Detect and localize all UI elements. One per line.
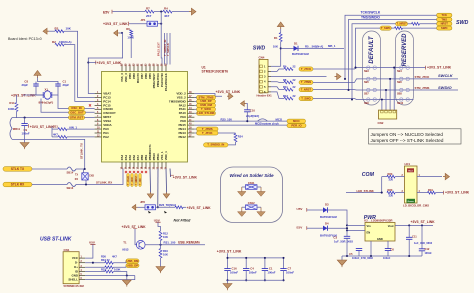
node junction bbox=[87, 61, 89, 63]
power label +3V3_ST_LINK bbox=[183, 206, 186, 208]
svg-text:+3V3_ST_LINK: +3V3_ST_LINK bbox=[217, 249, 242, 253]
svg-text:LD1: LD1 bbox=[405, 162, 411, 166]
svg-text:MCO: MCO bbox=[276, 117, 283, 121]
svg-text:RESERVED: RESERVED bbox=[402, 33, 408, 67]
wire bbox=[38, 78, 59, 85]
svg-text:LED_STLINK: LED_STLINK bbox=[197, 111, 214, 115]
wire bbox=[135, 229, 137, 245]
node junction bbox=[24, 117, 26, 119]
wire MCO row bbox=[195, 120, 288, 122]
net label USB_DM bbox=[126, 259, 139, 263]
ground bbox=[341, 256, 343, 260]
svg-text:SWCLK: SWCLK bbox=[438, 73, 454, 78]
wire GND row bbox=[85, 275, 135, 277]
wire bbox=[195, 100, 197, 102]
wire bbox=[280, 29, 282, 33]
wire bbox=[51, 127, 53, 137]
svg-text:TX: TX bbox=[75, 175, 78, 177]
svg-text:+3V3_ST_LINK: +3V3_ST_LINK bbox=[216, 90, 241, 94]
svg-text:10K: 10K bbox=[273, 45, 278, 49]
svg-text:R36: R36 bbox=[101, 254, 106, 258]
svg-text:U5V: U5V bbox=[297, 207, 304, 211]
U1 left pins bbox=[95, 93, 102, 95]
wire TMS/SWDIO bbox=[349, 20, 437, 91]
wire bbox=[36, 86, 44, 95]
wire bbox=[395, 176, 404, 178]
svg-text:+3V3_ST_LINK: +3V3_ST_LINK bbox=[103, 22, 128, 26]
resistor R12 bbox=[284, 97, 293, 100]
wire CN4 pin1 to D1 node bbox=[271, 65, 281, 67]
capacitor C16 bbox=[227, 258, 229, 269]
wire JP6 net bbox=[157, 169, 159, 208]
svg-text:R31_100: R31_100 bbox=[164, 241, 176, 245]
svg-text:T1: T1 bbox=[123, 241, 127, 245]
capacitor C10 bbox=[244, 110, 250, 112]
wire bbox=[246, 112, 248, 121]
resistor R20 bbox=[387, 191, 395, 194]
U1 bottom pins bbox=[121, 162, 123, 169]
svg-text:R25_100: R25_100 bbox=[221, 117, 233, 121]
svg-text:Header 6X1: Header 6X1 bbox=[257, 93, 273, 97]
not fitted marks bbox=[148, 211, 151, 214]
resistor R12 bbox=[159, 231, 162, 240]
svg-text:SWD: SWD bbox=[456, 20, 469, 26]
svg-text:SWD: SWD bbox=[253, 45, 266, 51]
capacitor C5 bbox=[358, 251, 360, 256]
svg-text:T_SWO: T_SWO bbox=[301, 96, 311, 100]
svg-text:JP1: JP1 bbox=[141, 18, 146, 22]
svg-text:LD_BICOLOR_CMS: LD_BICOLOR_CMS bbox=[403, 203, 429, 207]
svg-text:SB10: SB10 bbox=[397, 102, 404, 105]
wire bbox=[113, 272, 127, 276]
svg-text:PA2: PA2 bbox=[103, 135, 109, 139]
svg-text:CN4: CN4 bbox=[259, 56, 265, 60]
svg-text:+3V3_ST_LINK: +3V3_ST_LINK bbox=[122, 225, 147, 229]
capacitor C1 bbox=[264, 258, 266, 269]
stadium RESERVED bbox=[396, 31, 414, 105]
svg-text:10K: 10K bbox=[163, 235, 168, 239]
wire row2 SWCLK bbox=[414, 78, 459, 80]
svg-text:+3V3_ST_LINK: +3V3_ST_LINK bbox=[445, 191, 470, 195]
transistor T1 bbox=[136, 240, 145, 249]
svg-text:10K: 10K bbox=[163, 253, 168, 257]
solder bridge SB13 bbox=[67, 183, 76, 187]
svg-text:AIN_1: AIN_1 bbox=[69, 125, 77, 129]
svg-text:STM_JTMS: STM_JTMS bbox=[415, 86, 430, 90]
wire bbox=[76, 168, 85, 170]
net label T_JTMS bbox=[299, 80, 313, 84]
svg-text:USB_DM: USB_DM bbox=[127, 259, 139, 263]
resistor R24 bbox=[234, 134, 237, 143]
resistor R35 bbox=[105, 266, 113, 269]
svg-text:9013: 9013 bbox=[122, 247, 129, 251]
svg-text:22: 22 bbox=[293, 78, 296, 82]
svg-text:E5V: E5V bbox=[297, 225, 304, 229]
svg-text:SWDIO: SWDIO bbox=[438, 85, 452, 90]
net label T_SWO bbox=[299, 96, 313, 100]
svg-text:TMS: TMS bbox=[441, 17, 447, 21]
svg-text:R9: R9 bbox=[283, 64, 287, 68]
note box jumpers bbox=[369, 129, 462, 144]
wire bbox=[281, 47, 294, 49]
svg-text:STLK RX: STLK RX bbox=[11, 182, 25, 186]
wire bbox=[218, 132, 236, 134]
svg-text:Not Fitted: Not Fitted bbox=[174, 219, 192, 223]
wire SWDIO long bbox=[195, 96, 197, 98]
wire bbox=[165, 169, 168, 193]
svg-text:SB7: SB7 bbox=[364, 92, 369, 95]
power flag arrow left bbox=[43, 28, 47, 34]
svg-text:OSC_OUT: OSC_OUT bbox=[70, 110, 84, 114]
svg-text:PA14/SWCLK: PA14/SWCLK bbox=[164, 73, 168, 91]
resistor R7 bbox=[145, 10, 154, 13]
wire bbox=[235, 132, 237, 135]
wire Vout bbox=[395, 224, 433, 226]
power flag arrow down bbox=[147, 194, 153, 198]
svg-text:+3V3_ST_LINK: +3V3_ST_LINK bbox=[30, 125, 55, 129]
resistor R26 bbox=[175, 206, 183, 209]
wire solder-bridge row bbox=[363, 67, 414, 69]
wire hop bbox=[258, 119, 268, 121]
svg-text:+3V3_ST_LINK: +3V3_ST_LINK bbox=[97, 61, 122, 65]
ground arrows bbox=[242, 186, 246, 188]
wire row3 SWDIO bbox=[414, 89, 459, 91]
svg-text:C3: C3 bbox=[333, 236, 337, 240]
capacitor C3 bbox=[346, 230, 348, 236]
wire bbox=[381, 177, 383, 193]
wire bbox=[113, 266, 126, 267]
svg-text:SHELL: SHELL bbox=[68, 278, 78, 282]
svg-text:R34 22: R34 22 bbox=[101, 258, 110, 262]
wire solder-bridge row bbox=[363, 99, 414, 101]
net label USB_DP bbox=[197, 99, 216, 103]
wire bbox=[16, 95, 18, 103]
wire bbox=[149, 169, 152, 193]
svg-text:+3V3_ST_LINK: +3V3_ST_LINK bbox=[427, 66, 452, 70]
net label T_SWO bbox=[380, 26, 391, 30]
svg-text:SB6: SB6 bbox=[397, 81, 402, 84]
net label T_SWDIO_IN bbox=[204, 143, 229, 147]
power flag arrow left bbox=[241, 101, 245, 107]
wire bbox=[395, 192, 404, 194]
svg-text:PB12: PB12 bbox=[178, 135, 186, 139]
svg-text:100nF: 100nF bbox=[267, 271, 275, 275]
mcu U1 STM32F103CBT6 bbox=[102, 72, 188, 163]
power flag +3V3 arrow right bbox=[191, 8, 196, 15]
svg-text:GND: GND bbox=[377, 237, 383, 241]
net label T_JTCK bbox=[299, 67, 313, 71]
svg-text:CN12: CN12 bbox=[248, 201, 255, 205]
wire bbox=[271, 81, 284, 84]
svg-text:JP6: JP6 bbox=[140, 200, 145, 204]
solder bridge SB14 bbox=[67, 167, 76, 171]
svg-text:R12: R12 bbox=[163, 231, 168, 235]
svg-text:100nF: 100nF bbox=[230, 271, 238, 275]
wire bbox=[49, 30, 55, 32]
wire LED_STLINK bbox=[346, 192, 382, 194]
svg-text:T_JCLK: T_JCLK bbox=[127, 176, 130, 185]
ground bbox=[126, 276, 128, 281]
wire bbox=[166, 33, 168, 65]
node junction bbox=[160, 23, 162, 25]
off-page STLK_RX bbox=[3, 182, 32, 187]
net label T_SWO bbox=[197, 107, 216, 111]
resistor R23 bbox=[387, 175, 395, 178]
svg-text:22: 22 bbox=[293, 94, 296, 98]
svg-text:R3: R3 bbox=[55, 27, 59, 31]
resistor R21 bbox=[52, 128, 58, 130]
svg-text:R20: R20 bbox=[388, 188, 393, 192]
U1 top pins bbox=[121, 65, 123, 72]
svg-text:22: 22 bbox=[293, 64, 296, 68]
SWD pad TCK bbox=[437, 13, 453, 17]
svg-text:U2__LD39050PU33R: U2__LD39050PU33R bbox=[364, 219, 393, 223]
wire bbox=[76, 169, 123, 185]
svg-text:T_SWCLK: T_SWCLK bbox=[166, 43, 170, 56]
net label T_NRST bbox=[396, 22, 408, 26]
net label OSC_IN bbox=[69, 106, 85, 110]
svg-text:MCO/system clock: MCO/system clock bbox=[255, 121, 279, 125]
net label USB_DP bbox=[126, 263, 139, 267]
net label T_JDI (vertical) bbox=[139, 174, 142, 187]
svg-text:USB_RENUMn: USB_RENUMn bbox=[178, 241, 200, 245]
svg-text:SWO: SWO bbox=[441, 26, 447, 30]
resistor R9 bbox=[284, 68, 293, 71]
svg-text:R19: R19 bbox=[428, 188, 433, 192]
wire SHELL row bbox=[85, 276, 135, 280]
svg-text:STLINK_TX: STLINK_TX bbox=[80, 143, 84, 159]
svg-text:SB5: SB5 bbox=[364, 81, 369, 84]
svg-text:R23: R23 bbox=[388, 172, 393, 176]
net label T_JCLK (vertical) bbox=[127, 174, 130, 187]
power label +3V3_ST_LINK bbox=[169, 169, 172, 178]
svg-text:U5V: U5V bbox=[89, 241, 96, 245]
power label +3V3_ST_LINK bbox=[28, 124, 30, 128]
wire ID row bbox=[85, 271, 105, 273]
node junction bbox=[121, 32, 123, 34]
svg-text:R12: R12 bbox=[283, 94, 288, 98]
svg-text:T_NRST: T_NRST bbox=[135, 175, 138, 185]
svg-text:Board Ident: PC13=0: Board Ident: PC13=0 bbox=[8, 37, 42, 41]
wire bbox=[271, 69, 284, 71]
svg-text:T_JTCK: T_JTCK bbox=[301, 67, 311, 71]
svg-text:T_NRST: T_NRST bbox=[396, 22, 407, 26]
ground bbox=[24, 126, 26, 143]
svg-text:1uF_X5R_0603: 1uF_X5R_0603 bbox=[414, 241, 433, 245]
svg-text:R24: R24 bbox=[238, 135, 243, 139]
svg-text:T_SWDIO_IN: T_SWDIO_IN bbox=[207, 143, 224, 147]
svg-text:507DMR-05-SM: 507DMR-05-SM bbox=[64, 284, 85, 288]
wire bbox=[113, 261, 126, 263]
U1 right pins bbox=[188, 93, 195, 95]
SWD pad SWO bbox=[437, 26, 453, 30]
connector CN2 bbox=[379, 110, 397, 119]
wire bbox=[195, 104, 197, 106]
wire bbox=[32, 168, 67, 170]
svg-text:22: 22 bbox=[293, 85, 296, 89]
svg-text:100K: 100K bbox=[127, 36, 134, 40]
svg-text:Vin: Vin bbox=[367, 224, 371, 228]
svg-text:Vout: Vout bbox=[388, 224, 394, 228]
svg-text:D1: D1 bbox=[294, 41, 298, 45]
svg-text:STLINK_RX: STLINK_RX bbox=[96, 181, 112, 185]
power flag arrow left bbox=[132, 205, 136, 211]
svg-text:USB_DP: USB_DP bbox=[127, 263, 138, 267]
svg-text:SB9: SB9 bbox=[364, 102, 369, 105]
svg-text:SB13: SB13 bbox=[67, 186, 74, 190]
wire OSC_IN bbox=[58, 95, 95, 109]
wire OSC_OUT bbox=[41, 99, 95, 113]
ground bbox=[156, 267, 165, 272]
power flag arrow up bbox=[277, 22, 284, 27]
off-page STLK_TX bbox=[3, 167, 32, 172]
wire bbox=[271, 87, 284, 90]
svg-text:4K7: 4K7 bbox=[53, 133, 58, 137]
svg-text:STM32F103CBT6: STM32F103CBT6 bbox=[202, 69, 229, 73]
capacitor C8 bbox=[33, 84, 38, 86]
wire bbox=[88, 33, 122, 94]
svg-text:20pF[N/A]: 20pF[N/A] bbox=[246, 114, 259, 118]
wire bbox=[307, 227, 323, 229]
wire row 2 bbox=[195, 124, 288, 126]
svg-text:C11: C11 bbox=[412, 235, 417, 239]
power flag arrow down bbox=[163, 194, 169, 198]
svg-text:CN2: CN2 bbox=[378, 121, 384, 125]
wire bbox=[145, 244, 205, 246]
svg-text:100nF: 100nF bbox=[425, 251, 433, 255]
wire bbox=[307, 209, 323, 211]
SWD pad NRST bbox=[437, 22, 453, 26]
svg-text:X1: X1 bbox=[45, 88, 49, 92]
wire ground rail bbox=[342, 255, 422, 257]
no-connect crosses bbox=[125, 171, 127, 173]
svg-text:330: 330 bbox=[389, 193, 394, 197]
wire D+ row bbox=[85, 266, 105, 268]
svg-text:100nF: 100nF bbox=[286, 271, 294, 275]
wire bbox=[154, 11, 163, 13]
wire row1 right to +3V3 bbox=[414, 67, 426, 69]
svg-text:R7: R7 bbox=[146, 6, 150, 10]
wire bbox=[417, 192, 428, 194]
svg-text:MB_1: MB_1 bbox=[328, 44, 336, 48]
svg-text:BAT60JFILM: BAT60JFILM bbox=[320, 215, 337, 219]
power flag arrow left bbox=[114, 30, 118, 36]
svg-text:20pF: 20pF bbox=[63, 83, 70, 87]
net label PER_IO bbox=[287, 124, 306, 128]
power flag arrow right bbox=[337, 73, 341, 79]
svg-text:R33: R33 bbox=[101, 267, 106, 271]
svg-text:100nF: 100nF bbox=[249, 271, 257, 275]
svg-text:DEFAULT: DEFAULT bbox=[369, 35, 375, 64]
resistor R33 bbox=[105, 270, 113, 273]
svg-text:T_JTMS: T_JTMS bbox=[301, 80, 311, 84]
wire bbox=[172, 11, 189, 13]
svg-text:10K: 10K bbox=[66, 27, 72, 31]
svg-text:Red: Red bbox=[408, 170, 413, 172]
power label +3V3_ST_LINK bbox=[95, 61, 97, 65]
svg-text:D3: D3 bbox=[325, 203, 329, 207]
wire bbox=[129, 23, 147, 25]
wire bbox=[64, 45, 95, 102]
svg-text:100K: 100K bbox=[114, 267, 120, 271]
svg-text:T_JDO: T_JDO bbox=[131, 177, 134, 185]
wire bbox=[417, 176, 442, 178]
svg-text:2K7: 2K7 bbox=[146, 14, 152, 18]
wire U2 ground pins bbox=[370, 241, 372, 256]
wire STM_RST row bbox=[12, 117, 95, 119]
svg-text:4K7: 4K7 bbox=[164, 14, 170, 18]
resistor R4 bbox=[163, 10, 172, 13]
wire bbox=[32, 184, 67, 186]
resistor R34 bbox=[105, 261, 113, 264]
svg-text:TCK: TCK bbox=[442, 13, 448, 17]
svg-text:100K: 100K bbox=[8, 107, 15, 111]
svg-text:BAT60JFILM: BAT60JFILM bbox=[292, 52, 309, 56]
wire bbox=[328, 210, 348, 225]
svg-text:+3V3_ST_LINK: +3V3_ST_LINK bbox=[411, 220, 436, 224]
wire NRST row bbox=[352, 24, 396, 100]
svg-text:RX: RX bbox=[75, 179, 79, 181]
svg-text:SB3: SB3 bbox=[364, 70, 369, 73]
wire bbox=[195, 112, 197, 114]
node junction bbox=[160, 11, 162, 13]
svg-text:C5: C5 bbox=[349, 252, 353, 256]
net label LED_STLINK bbox=[197, 111, 216, 115]
svg-text:SB8: SB8 bbox=[397, 92, 402, 95]
SWD pad TMS bbox=[437, 18, 453, 22]
wire bbox=[313, 68, 363, 69]
wire bottom rail bbox=[228, 279, 284, 281]
net label T_JTMS bbox=[195, 128, 197, 130]
wire bbox=[313, 89, 363, 91]
svg-text:R1: R1 bbox=[274, 36, 278, 40]
svg-text:CN3: CN3 bbox=[89, 175, 95, 178]
net label STM_RST bbox=[69, 116, 85, 120]
net label T_NRST (vertical) bbox=[135, 174, 138, 187]
wire bbox=[347, 224, 365, 226]
net label MCO bbox=[287, 119, 306, 123]
wire top rail bbox=[228, 257, 284, 259]
svg-text:U5V: U5V bbox=[154, 218, 161, 222]
svg-text:TMS/SWDIO: TMS/SWDIO bbox=[361, 16, 380, 20]
svg-text:CN11: CN11 bbox=[248, 181, 255, 185]
svg-text:100nF: 100nF bbox=[22, 132, 30, 136]
wire bbox=[85, 244, 93, 258]
net label T_JTCK bbox=[195, 132, 197, 134]
svg-text:MCO: MCO bbox=[293, 119, 300, 123]
svg-text:R4: R4 bbox=[164, 6, 168, 10]
crystal X1 bbox=[44, 91, 51, 99]
svg-text:20pF: 20pF bbox=[21, 83, 28, 87]
svg-text:D-: D- bbox=[75, 261, 78, 265]
wire solder-bridge row bbox=[363, 89, 414, 91]
svg-text:T_SWO: T_SWO bbox=[381, 26, 391, 30]
svg-text:Wired on Solder Side: Wired on Solder Side bbox=[229, 173, 274, 178]
svg-text:NRST: NRST bbox=[441, 22, 449, 26]
svg-text:TCK/SWCLK: TCK/SWCLK bbox=[361, 10, 381, 14]
resistor SB1 bbox=[395, 27, 403, 30]
wire bbox=[313, 79, 363, 83]
svg-text:COM: COM bbox=[362, 172, 375, 178]
wire bbox=[113, 11, 146, 13]
net label STM_JTMS bbox=[197, 95, 216, 99]
svg-text:VDD_1: VDD_1 bbox=[164, 151, 168, 160]
svg-text:+3V3_ST_LINK: +3V3_ST_LINK bbox=[173, 176, 198, 180]
resistor R1 bbox=[279, 33, 282, 42]
svg-text:+3V3_ST_LINK: +3V3_ST_LINK bbox=[187, 206, 212, 210]
net label T_NRST bbox=[299, 88, 313, 92]
svg-text:R8: R8 bbox=[283, 78, 287, 82]
